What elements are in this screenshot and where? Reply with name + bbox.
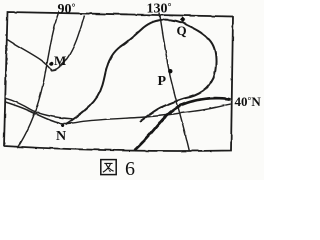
svg-text:M: M [54, 53, 66, 68]
svg-text:N: N [56, 129, 66, 144]
svg-text:P: P [158, 74, 167, 89]
svg-text:90°: 90° [58, 2, 76, 17]
svg-text:6: 6 [125, 158, 135, 180]
svg-text:Q: Q [177, 23, 187, 38]
svg-text:130°: 130° [147, 2, 172, 17]
svg-text:40°N: 40°N [235, 94, 262, 109]
